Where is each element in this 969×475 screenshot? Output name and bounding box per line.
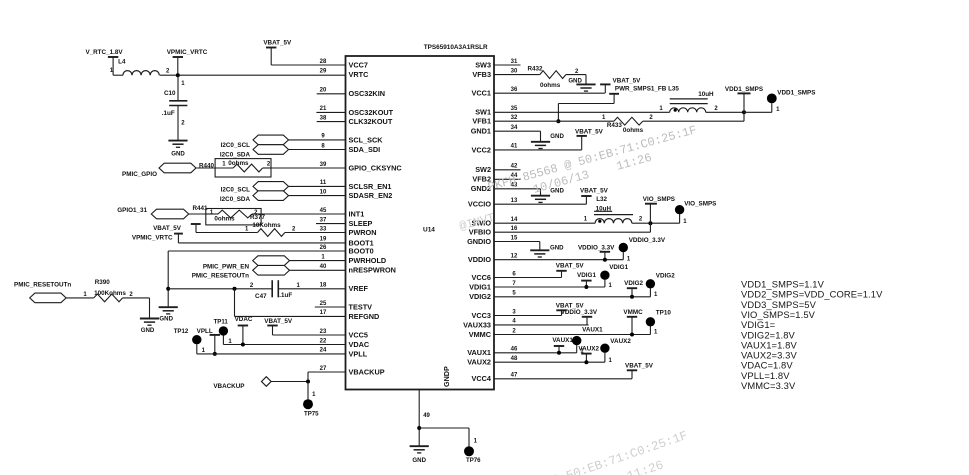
svg-text:I2C0_SDA: I2C0_SDA [220, 196, 251, 203]
stub SLEEP pin 37 [316, 223, 346, 225]
svg-text:TP10: TP10 [656, 309, 672, 316]
svg-text:SCLSR_EN1: SCLSR_EN1 [349, 182, 392, 191]
test point VDDIO_3.3V [619, 237, 666, 263]
wire GNDIO pin 15 [494, 242, 540, 251]
svg-text:.1uF: .1uF [162, 110, 175, 117]
resistor R390 100Kohms [66, 279, 149, 319]
svg-text:R390: R390 [95, 279, 111, 286]
svg-text:VCC7: VCC7 [349, 60, 368, 69]
svg-text:31: 31 [511, 59, 518, 65]
capacitor C10 [162, 75, 188, 140]
ground GND for VFB3 [568, 77, 595, 91]
svg-text:C10: C10 [164, 90, 176, 97]
watermark center [450, 123, 707, 234]
svg-text:TP75: TP75 [304, 411, 319, 418]
ground GND below C10 [168, 141, 187, 158]
svg-text:0ohms: 0ohms [623, 127, 644, 134]
ground GND for GNDIO [530, 244, 564, 257]
svg-text:VPMIC_VRTC: VPMIC_VRTC [132, 235, 173, 242]
power VBAT_5V for VCC2 [494, 129, 604, 150]
node I2C0_SDA (pin 8) [220, 145, 346, 159]
power V_RTC_1.8V [85, 49, 123, 75]
junction VDAC tap [241, 343, 245, 347]
svg-text:PMIC_RESETOUTn: PMIC_RESETOUTn [192, 273, 249, 280]
wire VDAC pin 22 [223, 344, 345, 346]
svg-text:nRESPWRON: nRESPWRON [349, 266, 396, 275]
svg-text:PWRHOLD: PWRHOLD [349, 256, 387, 265]
node PMIC_GPIO [122, 163, 196, 178]
stub CLK32KOUT pin 38 [317, 121, 346, 123]
svg-text:45: 45 [320, 208, 327, 214]
junction VDDIO tap [603, 258, 607, 262]
svg-text:VBAT_5V: VBAT_5V [613, 77, 642, 84]
junction VDIG2 tap [630, 295, 634, 299]
node PMIC_RESETOUTn (to nRESPWRON) [192, 266, 346, 280]
svg-text:29: 29 [320, 68, 327, 74]
svg-text:11: 11 [320, 180, 327, 186]
ground GND for R390 [140, 319, 159, 335]
svg-text:42: 42 [511, 164, 518, 170]
stub OSC32KOUT pin 21 [316, 111, 345, 113]
svg-text:28: 28 [320, 59, 327, 65]
power VDIG2 [624, 280, 643, 297]
wire VDIG1 pin 7 [494, 286, 605, 288]
junction BOOT0/GND net [166, 287, 170, 291]
svg-text:U14: U14 [423, 227, 435, 234]
node voltage notes text block [741, 279, 883, 392]
svg-text:22: 22 [320, 338, 327, 344]
node I2C0_SDA (pin 10) [220, 191, 346, 203]
test point TP11 [214, 318, 233, 345]
power VBAT_5V for VCC4 [494, 362, 654, 378]
svg-text:26: 26 [320, 245, 327, 251]
power VBAT_5V for VCC1 [494, 77, 641, 93]
svg-text:C47: C47 [255, 293, 267, 300]
svg-text:16: 16 [511, 226, 518, 232]
svg-text:VPMIC_VRTC: VPMIC_VRTC [167, 49, 208, 56]
svg-text:SLEEP: SLEEP [349, 219, 373, 228]
stub OSC32KIN pin 20 [317, 93, 346, 95]
wire REFGND pin 17 [235, 289, 346, 317]
svg-text:VAUX1: VAUX1 [552, 337, 573, 344]
svg-text:VMMC: VMMC [623, 309, 643, 316]
test point VIO_SMPS [675, 201, 717, 226]
wire VMMC pin 2 [494, 334, 650, 336]
junction VMMC tap [630, 333, 634, 337]
svg-text:SCL_SCK: SCL_SCK [349, 135, 384, 144]
svg-text:VBACKUP: VBACKUP [349, 367, 385, 376]
svg-text:48: 48 [511, 356, 518, 362]
power VIO_SMPS [643, 196, 675, 232]
junction VBACKUP/TP75 [306, 380, 310, 384]
junction VAUX1 tap [557, 351, 561, 355]
wire SW1 pin 35 [494, 111, 670, 113]
wire VDDIO pin 12 [494, 259, 623, 261]
svg-text:V_RTC_1.8V: V_RTC_1.8V [85, 49, 123, 56]
power VBAT_5V for VCCIO [494, 187, 609, 204]
svg-text:R433: R433 [607, 122, 623, 129]
svg-text:REFGND: REFGND [349, 312, 380, 321]
test point VDIG2 [646, 273, 675, 298]
wire GPIO_CKSYNC pin 39 [271, 167, 346, 169]
power VDD1_SMPS [725, 86, 763, 121]
wire GNDP pin 49 [419, 390, 430, 447]
svg-text:GND: GND [141, 327, 155, 334]
svg-text:VDIG1: VDIG1 [469, 282, 491, 291]
wire VCC7 pin 28 [271, 64, 345, 66]
svg-text:BOOT0: BOOT0 [349, 246, 374, 255]
svg-text:VREF: VREF [349, 284, 369, 293]
svg-text:GND: GND [159, 316, 173, 323]
junction VDD1_SMPS node [742, 110, 746, 114]
svg-text:VCC6: VCC6 [472, 273, 491, 282]
svg-text:VDIG2: VDIG2 [469, 292, 491, 301]
svg-text:38: 38 [320, 115, 327, 121]
wire VBACKUP pin 27 [308, 372, 346, 382]
svg-text:13: 13 [511, 198, 518, 204]
svg-text:VCC3: VCC3 [472, 311, 491, 320]
wire VCC5 pin 23 [273, 334, 346, 336]
svg-text:.1uF: .1uF [279, 292, 292, 299]
stub SW2 pin 42 [494, 169, 521, 171]
svg-text:TESTV: TESTV [349, 302, 373, 311]
power VDDIO_3.3V [578, 244, 615, 259]
svg-text:I2C0_SDA: I2C0_SDA [220, 151, 251, 158]
svg-text:OSC32KOUT: OSC32KOUT [349, 108, 394, 117]
power VAUX2 [578, 346, 599, 363]
svg-text:VCC4: VCC4 [472, 374, 492, 383]
power PWR_SMPS1_FB tap [558, 86, 679, 122]
svg-text:VMMC: VMMC [469, 330, 492, 339]
svg-text:24: 24 [320, 348, 327, 354]
IC U14 TPS65910A3A1RSLR body [346, 44, 495, 390]
svg-text:27: 27 [320, 366, 327, 372]
svg-text:37: 37 [320, 217, 327, 223]
power VBAT_5V for VCC7 [263, 40, 292, 66]
wire VAUX2 pin 48 [494, 361, 605, 363]
power VPLL [197, 328, 220, 354]
svg-text:PWR_SMPS1_FB L35: PWR_SMPS1_FB L35 [615, 86, 680, 93]
svg-text:VBAT_5V: VBAT_5V [263, 40, 292, 47]
svg-text:VDDIO: VDDIO [468, 255, 491, 264]
node VBACKUP diamond [213, 377, 308, 391]
ground GND for GND1 [531, 133, 565, 148]
test point TP76 [419, 428, 481, 464]
svg-text:VCCIO: VCCIO [468, 200, 491, 209]
power VBAT_5V for R377 [153, 224, 201, 233]
svg-text:VFB1: VFB1 [472, 117, 491, 126]
power VDDIO_3.3V for VAUX33 [494, 309, 598, 325]
svg-text:17: 17 [320, 310, 327, 316]
inductor L4 [110, 58, 170, 75]
wire VRTC net to pin 29 [160, 74, 346, 76]
power VAUX1 [552, 337, 573, 353]
junction VDIG1 tap [584, 285, 588, 289]
svg-text:PMIC_PWR_EN: PMIC_PWR_EN [203, 263, 250, 270]
svg-text:VBAT_5V: VBAT_5V [575, 129, 604, 136]
svg-text:40: 40 [320, 264, 327, 270]
stub SW3 pin 31 [494, 64, 521, 66]
svg-text:GPIO1_31: GPIO1_31 [117, 207, 147, 214]
svg-text:SDASR_EN2: SDASR_EN2 [349, 191, 393, 200]
svg-text:VAUX2: VAUX2 [610, 338, 631, 345]
svg-text:21: 21 [320, 106, 327, 112]
test point TP12 [174, 328, 206, 354]
svg-text:18: 18 [320, 283, 327, 289]
svg-text:34: 34 [511, 125, 518, 131]
ground GND for GNDP [410, 446, 429, 464]
node PMIC_RESETOUTn (pulldown) [14, 281, 71, 302]
svg-text:20: 20 [320, 88, 327, 94]
power VMMC [623, 309, 643, 335]
svg-text:33: 33 [320, 226, 327, 232]
junction GNDP node [417, 426, 421, 430]
wire BOOT0 pin 26 [168, 251, 345, 307]
svg-text:VAUX2: VAUX2 [467, 358, 491, 367]
svg-text:VBAT_5V: VBAT_5V [556, 263, 585, 270]
svg-text:VBAT_5V: VBAT_5V [625, 362, 654, 369]
svg-text:SW1: SW1 [475, 108, 491, 117]
svg-text:36: 36 [511, 87, 518, 93]
svg-text:GND: GND [550, 133, 564, 140]
power VBAT_5V for VCC5 [264, 318, 293, 335]
svg-text:L32: L32 [596, 196, 607, 203]
junction VPLL tap [213, 352, 217, 356]
svg-text:VIO_SMPS: VIO_SMPS [643, 196, 675, 203]
svg-text:VDDIO_3.3V: VDDIO_3.3V [578, 244, 615, 251]
svg-text:VDDIO_3.3V: VDDIO_3.3V [561, 309, 598, 316]
svg-text:VCC1: VCC1 [472, 89, 491, 98]
svg-text:VPLL: VPLL [349, 349, 368, 358]
svg-text:VDIG1: VDIG1 [577, 272, 596, 279]
svg-text:GND1: GND1 [471, 127, 491, 136]
svg-text:VMMC=3.3V: VMMC=3.3V [741, 380, 796, 391]
power VPMIC_VRTC for BOOT1 [132, 234, 183, 243]
svg-text:VDDIO_3.3V: VDDIO_3.3V [629, 237, 666, 244]
wire INT1 pin 45 [261, 213, 345, 215]
node PMIC_PWR_EN [203, 256, 346, 270]
svg-text:TP11: TP11 [214, 318, 229, 325]
junction REFGND tap [233, 287, 237, 291]
svg-text:35: 35 [511, 106, 518, 112]
wire VFBIO pin 16 [494, 231, 650, 233]
svg-text:GPIO_CKSYNC: GPIO_CKSYNC [349, 163, 403, 172]
svg-text:25: 25 [320, 301, 327, 307]
ground GND for GND2 [531, 187, 565, 202]
svg-text:30: 30 [511, 68, 518, 74]
resistor R377 10Kohms [196, 214, 296, 236]
svg-text:PMIC_RESETOUTn: PMIC_RESETOUTn [14, 281, 71, 288]
wire VDIG2 pin 5 [494, 296, 650, 298]
svg-text:32: 32 [511, 115, 518, 121]
svg-text:SW2: SW2 [475, 165, 491, 174]
svg-text:CLK32KOUT: CLK32KOUT [349, 117, 393, 126]
wire GND1 pin 34 [494, 131, 541, 142]
svg-text:PWRON: PWRON [349, 228, 377, 237]
svg-text:VIO_SMPS: VIO_SMPS [684, 201, 716, 208]
svg-text:R432: R432 [527, 66, 543, 73]
test point TP75 [303, 382, 319, 418]
svg-text:15: 15 [511, 235, 518, 241]
node I2C0_SCL (pin 11) [221, 182, 346, 194]
svg-text:I2C0_SCL: I2C0_SCL [221, 142, 251, 149]
capacitor C47 [168, 280, 345, 300]
svg-text:VDD1_SMPS: VDD1_SMPS [725, 86, 763, 93]
svg-text:OSC32KIN: OSC32KIN [349, 89, 386, 98]
resistor R440 0ohms [196, 159, 271, 177]
svg-text:19: 19 [320, 237, 327, 243]
svg-text:10Kohms: 10Kohms [252, 222, 281, 229]
power VDIG1 [577, 272, 596, 287]
svg-text:12: 12 [511, 254, 518, 260]
junction VPMIC_VRTC node [176, 73, 180, 77]
svg-text:PMIC_GPIO: PMIC_GPIO [122, 171, 157, 178]
watermark bottom [472, 429, 696, 475]
svg-text:VAUX1: VAUX1 [467, 348, 491, 357]
stub VFB2 pin 44 [494, 178, 521, 180]
svg-text:GND: GND [550, 244, 564, 251]
svg-text:GND: GND [171, 151, 185, 158]
svg-text:GND: GND [412, 457, 426, 464]
wire BOOT1 pin 19 [178, 242, 345, 244]
svg-text:SDA_SDI: SDA_SDI [349, 145, 381, 154]
svg-text:10uH: 10uH [698, 91, 714, 98]
svg-text:0ohms: 0ohms [540, 82, 561, 89]
svg-text:GND: GND [568, 77, 582, 84]
power VDAC [235, 316, 253, 344]
wire GND2 pin 43 [494, 189, 541, 196]
svg-text:10: 10 [320, 189, 327, 195]
IC U14 pin names and pin numbers [320, 59, 518, 383]
svg-text:VRTC: VRTC [349, 70, 370, 79]
svg-text:VDD1_SMPS: VDD1_SMPS [777, 90, 815, 97]
stub TESTV pin 25 [315, 306, 346, 308]
resistor R432 0ohms [494, 66, 586, 90]
svg-text:VCC5: VCC5 [349, 330, 368, 339]
svg-text:VBAT_5V: VBAT_5V [580, 187, 609, 194]
svg-text:47: 47 [511, 373, 518, 379]
test point TP10 [646, 309, 672, 335]
svg-text:TP12: TP12 [174, 328, 189, 335]
svg-text:VAUX33: VAUX33 [463, 320, 491, 329]
test point VAUX2 [600, 338, 631, 364]
svg-text:46: 46 [511, 347, 518, 353]
svg-text:VFB3: VFB3 [472, 70, 491, 79]
svg-text:I2C0_SCL: I2C0_SCL [221, 186, 251, 193]
svg-text:VDIG2: VDIG2 [624, 280, 643, 287]
wire VAUX1 pin 46 [494, 352, 577, 354]
node GPIO1_31 [117, 207, 188, 219]
svg-text:VAUX2: VAUX2 [578, 346, 599, 353]
svg-text:VDAC: VDAC [349, 340, 370, 349]
junction VFB1 tap [556, 119, 560, 123]
test point VDIG1 [600, 264, 628, 289]
ground GND for BOOT0/C47 [159, 307, 178, 322]
svg-text:R377: R377 [250, 214, 266, 221]
wire PWRON pin 33 [285, 232, 346, 234]
node I2C0_SCL (pin 9) [221, 135, 346, 149]
power VBAT_5V for VCC6 [494, 263, 584, 278]
svg-text:VBAT_5V: VBAT_5V [264, 318, 293, 325]
svg-text:VDIG1: VDIG1 [609, 264, 628, 271]
svg-text:VBAT_5V: VBAT_5V [153, 225, 182, 232]
svg-text:VCC2: VCC2 [472, 145, 491, 154]
svg-text:VBACKUP: VBACKUP [213, 383, 244, 390]
power VBAT_5V for VCC3 [494, 302, 584, 315]
wire VPLL pin 24 [197, 353, 346, 355]
svg-text:L4: L4 [118, 58, 126, 65]
svg-text:41: 41 [511, 144, 518, 150]
svg-text:23: 23 [320, 329, 327, 335]
inductor L35 10uH [659, 91, 744, 112]
svg-text:TPS65910A3A1RSLR: TPS65910A3A1RSLR [424, 44, 488, 51]
svg-text:VDIG2: VDIG2 [656, 273, 675, 280]
junction VAUX2 tap [584, 360, 588, 364]
svg-text:14: 14 [511, 217, 518, 223]
test point VDD1_SMPS [744, 90, 815, 113]
junction VIO_SMPS node [648, 221, 652, 225]
inductor L32 10uH [494, 196, 680, 223]
svg-text:GNDP: GNDP [442, 366, 451, 387]
svg-text:39: 39 [320, 162, 327, 168]
resistor R441 0ohms [189, 205, 261, 225]
power VPMIC_VRTC [167, 49, 208, 75]
svg-text:GNDIO: GNDIO [467, 237, 491, 246]
svg-text:SW3: SW3 [475, 60, 491, 69]
test point VAUX1 [572, 327, 603, 355]
svg-text:VAUX1: VAUX1 [582, 327, 603, 334]
svg-text:INT1: INT1 [349, 209, 365, 218]
resistor R433 0ohms [494, 115, 744, 134]
svg-text:49: 49 [423, 413, 430, 419]
svg-text:TP76: TP76 [466, 457, 481, 464]
svg-text:VDAC: VDAC [235, 316, 253, 323]
